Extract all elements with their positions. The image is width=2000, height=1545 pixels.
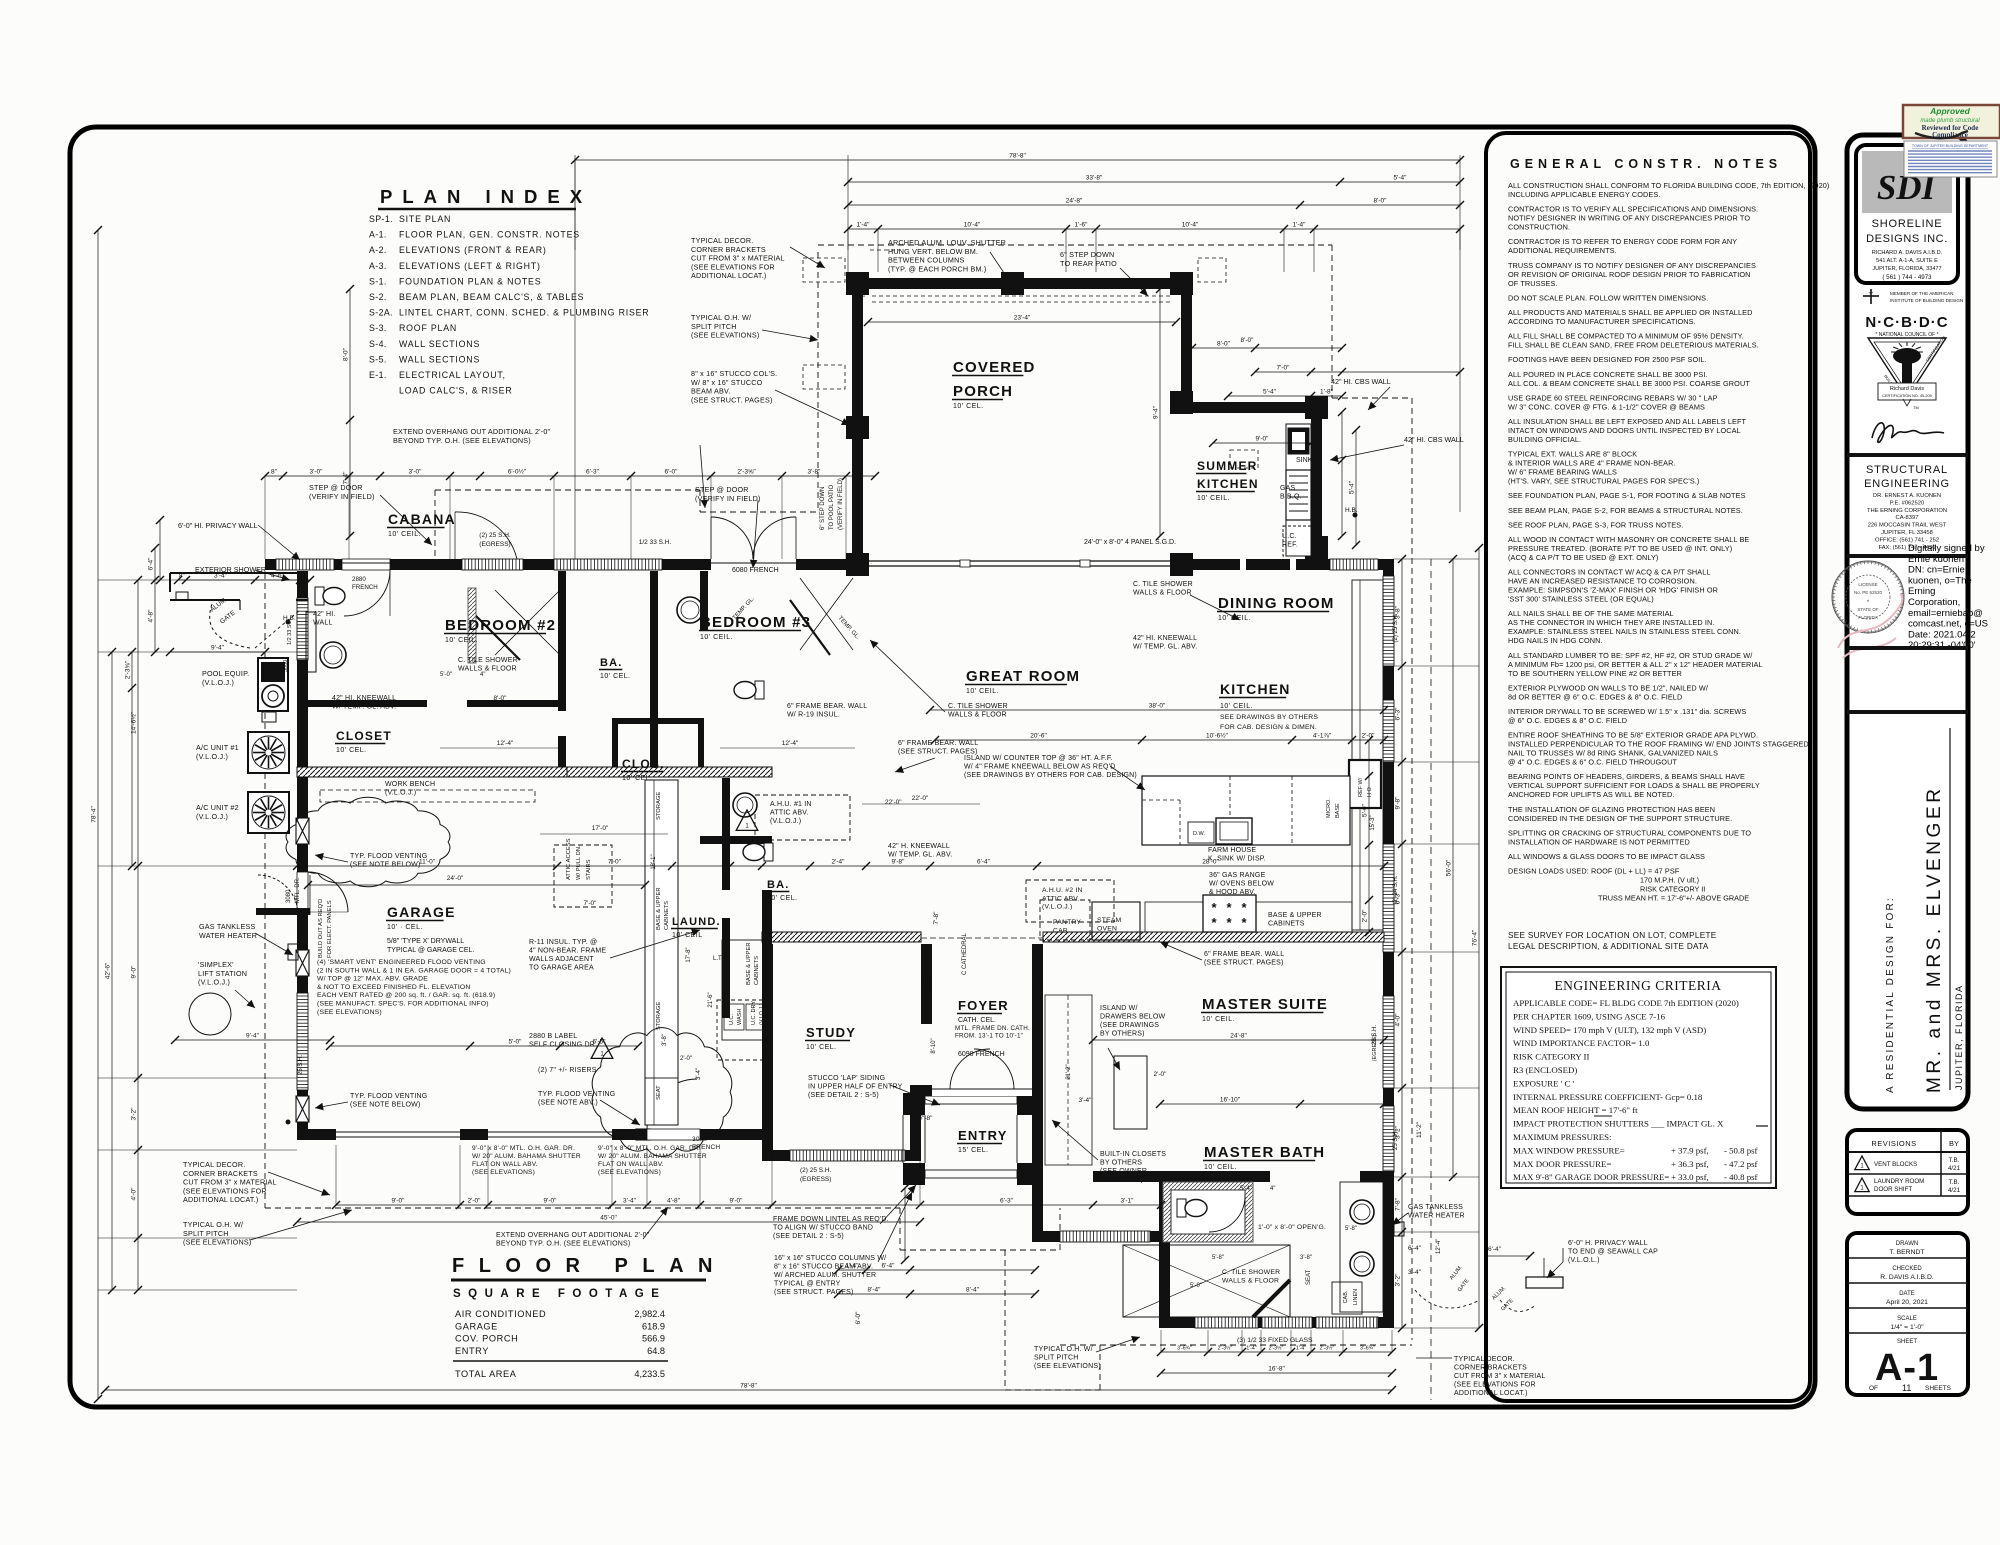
svg-text:(SEE OWNER: (SEE OWNER xyxy=(1100,1168,1147,1175)
svg-text:ALL WINDOWS & GLASS DOORS TO B: ALL WINDOWS & GLASS DOORS TO BE IMPACT G… xyxy=(1508,852,1705,861)
svg-text:6'-4": 6'-4" xyxy=(148,557,155,571)
svg-text:DESIGN LOADS USED: ROOF (DL +: DESIGN LOADS USED: ROOF (DL + LL) = 47 P… xyxy=(1508,867,1680,876)
svg-text:(2) 24 S.H.: (2) 24 S.H. xyxy=(1393,875,1399,904)
svg-text:OVEN: OVEN xyxy=(1097,925,1117,932)
svg-text:CORNER BRACKETS: CORNER BRACKETS xyxy=(691,245,766,254)
svg-text:W/ PULL DN.: W/ PULL DN. xyxy=(576,845,582,880)
svg-text:BEDROOM #3: BEDROOM #3 xyxy=(700,614,811,631)
svg-text:(V.L.O.J.): (V.L.O.J.) xyxy=(196,812,228,821)
svg-text:6'-0": 6'-0" xyxy=(855,1311,862,1325)
svg-text:(SEE ELEVATIONS): (SEE ELEVATIONS) xyxy=(317,1009,382,1016)
svg-text:INTERIOR DRYWALL TO BE SCREWED: INTERIOR DRYWALL TO BE SCREWED W/ 1.5" x… xyxy=(1508,707,1746,716)
svg-text:C. TILE SHOWER: C. TILE SHOWER xyxy=(1133,581,1193,588)
svg-text:3'-4": 3'-4" xyxy=(1408,1269,1422,1276)
svg-text:INCLUDING APPLICABLE ENERGY CO: INCLUDING APPLICABLE ENERGY CODES. xyxy=(1508,190,1661,199)
svg-text:9'-4": 9'-4" xyxy=(211,645,225,652)
svg-text:W/ 4" FRAME KNEEWALL BELOW AS: W/ 4" FRAME KNEEWALL BELOW AS REQ'D xyxy=(964,764,1116,771)
svg-text:TO BE SOUTHERN YELLOW PINE #2: TO BE SOUTHERN YELLOW PINE #2 OR BETTER xyxy=(1508,669,1682,678)
svg-text:S-2.: S-2. xyxy=(369,292,387,302)
svg-text:T. BERNDT: T. BERNDT xyxy=(1889,1249,1924,1256)
svg-text:& INTERIOR WALLS ARE 4" FRAME: & INTERIOR WALLS ARE 4" FRAME NON-BEAR. xyxy=(1508,459,1676,468)
svg-text:5080: 5080 xyxy=(283,660,289,672)
svg-text:76'-4": 76'-4" xyxy=(1472,929,1479,946)
svg-text:HDG NAILS IN HDG CONN.: HDG NAILS IN HDG CONN. xyxy=(1508,636,1603,645)
svg-text:TYP. FLOOD VENTING: TYP. FLOOD VENTING xyxy=(350,1093,427,1100)
svg-text:1'-4": 1'-4" xyxy=(857,222,871,229)
svg-text:11'-2": 11'-2" xyxy=(1416,1121,1423,1138)
svg-text:ALL STANDARD LUMBER TO BE: SPF: ALL STANDARD LUMBER TO BE: SPF #2, HF #2… xyxy=(1508,651,1753,660)
svg-text:W/ TOP @ 12" MAX. ABV. GRADE: W/ TOP @ 12" MAX. ABV. GRADE xyxy=(317,976,428,983)
svg-text:REF W/: REF W/ xyxy=(1358,777,1364,797)
svg-text:IN UPPER HALF OF ENTRY: IN UPPER HALF OF ENTRY xyxy=(808,1084,903,1091)
svg-text:5'-4": 5'-4" xyxy=(1263,389,1277,396)
svg-text:6'-3": 6'-3" xyxy=(1395,707,1402,721)
svg-text:42" HI. CBS WALL: 42" HI. CBS WALL xyxy=(1404,435,1464,444)
svg-text:WIND SPEED= 170 mph V (ULT), 1: WIND SPEED= 170 mph V (ULT), 132 mph V (… xyxy=(1513,1025,1706,1035)
svg-text:- 47.2 psf: - 47.2 psf xyxy=(1724,1159,1758,1169)
svg-text:CLOSET: CLOSET xyxy=(336,729,392,743)
svg-text:H.B.: H.B. xyxy=(283,615,296,622)
svg-text:3'-6¾": 3'-6¾" xyxy=(1177,1346,1192,1352)
svg-text:WASH: WASH xyxy=(737,1009,743,1025)
svg-text:18'-1": 18'-1" xyxy=(651,854,657,869)
svg-text:- 50.8 psf: - 50.8 psf xyxy=(1724,1145,1758,1155)
svg-text:CABANA: CABANA xyxy=(388,511,456,527)
svg-text:DATE: DATE xyxy=(1899,1291,1915,1297)
svg-text:10'-4": 10'-4" xyxy=(964,222,981,229)
svg-text:78'-8": 78'-8" xyxy=(740,1383,757,1390)
svg-text:8'-4": 8'-4" xyxy=(868,1287,882,1294)
svg-text:42'-6": 42'-6" xyxy=(105,962,112,979)
svg-text:(EGRESS): (EGRESS) xyxy=(1372,1035,1378,1062)
svg-text:4'-1⅞": 4'-1⅞" xyxy=(1313,733,1332,740)
svg-text:14'-6½": 14'-6½" xyxy=(130,711,138,734)
svg-text:EXTEND OVERHANG OUT ADDITIONAL: EXTEND OVERHANG OUT ADDITIONAL 2'-0" xyxy=(496,1232,650,1239)
svg-text:CLOS.: CLOS. xyxy=(622,757,665,771)
svg-text:(SEE DETAIL 2 : S-5): (SEE DETAIL 2 : S-5) xyxy=(808,1092,879,1099)
svg-text:4'-0": 4'-0" xyxy=(1395,1013,1402,1027)
svg-text:9'-8": 9'-8" xyxy=(892,859,906,866)
svg-text:8'-0": 8'-0" xyxy=(1374,198,1388,205)
svg-text:POOL EQUIP.: POOL EQUIP. xyxy=(202,669,249,678)
svg-text:LINEN: LINEN xyxy=(1353,1289,1359,1305)
svg-text:NAIL TO TRUSSES W/ 8d RING SHA: NAIL TO TRUSSES W/ 8d RING SHANK, GALVAN… xyxy=(1508,749,1718,758)
svg-text:LEGAL DESCRIPTION, & ADDITIONA: LEGAL DESCRIPTION, & ADDITIONAL SITE DAT… xyxy=(1508,942,1709,951)
svg-text:A/C UNIT #2: A/C UNIT #2 xyxy=(196,803,239,812)
svg-text:WIND IMPORTANCE FACTOR= 1.0: WIND IMPORTANCE FACTOR= 1.0 xyxy=(1513,1038,1650,1048)
svg-text:WALLS & FLOOR: WALLS & FLOOR xyxy=(458,666,517,673)
svg-text:7'-0": 7'-0" xyxy=(584,900,598,907)
svg-text:1'-8": 1'-8" xyxy=(1320,389,1334,396)
svg-text:3'-2": 3'-2" xyxy=(131,1107,138,1121)
svg-text:TYPICAL @ GARAGE CEL.: TYPICAL @ GARAGE CEL. xyxy=(387,947,474,954)
svg-text:7'-0": 7'-0" xyxy=(608,859,622,866)
svg-text:(SEE MANUFACT. SPEC'S. FOR ADD: (SEE MANUFACT. SPEC'S. FOR ADDITIONAL IN… xyxy=(317,1000,489,1007)
svg-text:W/ R-19 INSUL.: W/ R-19 INSUL. xyxy=(787,712,840,719)
svg-text:4": 4" xyxy=(1270,1186,1275,1192)
svg-text:7'-0": 7'-0" xyxy=(1277,365,1291,372)
svg-text:FLOOR PLAN: FLOOR PLAN xyxy=(452,1255,727,1277)
svg-text:W/ 6" FRAME BEARING WALLS: W/ 6" FRAME BEARING WALLS xyxy=(1508,468,1617,477)
svg-text:CORNER BRACKETS: CORNER BRACKETS xyxy=(1454,1365,1527,1372)
svg-text:CAB.: CAB. xyxy=(1053,927,1070,934)
svg-text:BEYOND TYP. O.H. (SEE ELEVATIO: BEYOND TYP. O.H. (SEE ELEVATIONS) xyxy=(393,436,531,445)
svg-text:email=erniebab@: email=erniebab@ xyxy=(1908,608,1983,619)
svg-text:RICHARD A. DAVIS A.I.B.D.: RICHARD A. DAVIS A.I.B.D. xyxy=(1872,250,1943,256)
svg-text:D.W.: D.W. xyxy=(1193,831,1205,837)
svg-text:2'-0": 2'-0" xyxy=(1154,1071,1168,1078)
svg-text:7'-8": 7'-8" xyxy=(933,911,940,925)
svg-text:6090 FRENCH: 6090 FRENCH xyxy=(958,1051,1005,1058)
svg-text:INSTALLED PERPENDICULAR TO THE: INSTALLED PERPENDICULAR TO THE ROOF FRAM… xyxy=(1508,740,1811,749)
svg-text:STEP @ DOOR: STEP @ DOOR xyxy=(695,485,749,494)
svg-text:W/ 3" CONC. COVER @ FTG. & 1-1: W/ 3" CONC. COVER @ FTG. & 1-1/2" COVER … xyxy=(1508,402,1705,411)
svg-text:8": 8" xyxy=(179,573,186,580)
svg-text:ACCORDING TO MANUFACTURER SPEC: ACCORDING TO MANUFACTURER SPECIFICATIONS… xyxy=(1508,317,1696,326)
svg-text:(V.L.O.J.): (V.L.O.J.) xyxy=(385,790,416,797)
svg-text:TRUSS MEAN HT. = 17'-6"+/- ABO: TRUSS MEAN HT. = 17'-6"+/- ABOVE GRADE xyxy=(1598,894,1749,903)
svg-text:CABINETS: CABINETS xyxy=(664,901,670,930)
svg-text:(VERIFY IN FIELD): (VERIFY IN FIELD) xyxy=(309,492,375,501)
svg-text:CORNER BRACKETS: CORNER BRACKETS xyxy=(183,1169,258,1178)
svg-text:S-1.: S-1. xyxy=(369,276,387,286)
svg-text:10' CEL.: 10' CEL. xyxy=(953,403,984,410)
svg-text:CERTIFICATION NO. 45-209: CERTIFICATION NO. 45-209 xyxy=(1882,394,1931,398)
svg-text:PLAN INDEX: PLAN INDEX xyxy=(380,186,592,207)
svg-text:VENT BLOCKS: VENT BLOCKS xyxy=(1874,1161,1917,1168)
svg-text:8'-0": 8'-0" xyxy=(343,347,350,361)
svg-text:TYP. FLOOD VENTING: TYP. FLOOD VENTING xyxy=(350,853,427,860)
svg-text:ENGINEERING: ENGINEERING xyxy=(1864,478,1950,490)
svg-text:ALL CONSTRUCTION SHALL CONFORM: ALL CONSTRUCTION SHALL CONFORM TO FLORID… xyxy=(1508,181,1829,190)
svg-text:3'-0": 3'-0" xyxy=(310,469,324,476)
svg-text:REF.: REF. xyxy=(1282,542,1298,549)
svg-text:3080: 3080 xyxy=(692,1136,707,1143)
svg-text:BEAM ABV.: BEAM ABV. xyxy=(691,387,731,396)
svg-text:6'-4": 6'-4" xyxy=(1488,1246,1502,1253)
svg-text:MASTER BATH: MASTER BATH xyxy=(1204,1144,1325,1161)
svg-text:BUILD OUT AS REQ'D: BUILD OUT AS REQ'D xyxy=(318,899,324,958)
svg-text:U.C.: U.C. xyxy=(1282,533,1297,540)
svg-text:4/21: 4/21 xyxy=(1948,1187,1961,1194)
svg-text:E-1.: E-1. xyxy=(369,370,387,380)
svg-text:ALL INSULATION SHALL BE LEFT E: ALL INSULATION SHALL BE LEFT EXPOSED AND… xyxy=(1508,417,1747,426)
svg-text:24'-0" x 8'-0" 4 PANEL S.G.D.: 24'-0" x 8'-0" 4 PANEL S.G.D. xyxy=(1084,539,1176,546)
svg-text:16'-8": 16'-8" xyxy=(1268,1366,1285,1373)
svg-text:WATER HEATER: WATER HEATER xyxy=(199,931,257,940)
svg-text:MAX DOOR PRESSURE=: MAX DOOR PRESSURE= xyxy=(1513,1159,1611,1169)
svg-text:2880: 2880 xyxy=(352,576,366,583)
svg-text:DO NOT SCALE PLAN. FOLLOW WRIT: DO NOT SCALE PLAN. FOLLOW WRITTEN DIMENS… xyxy=(1508,293,1708,302)
svg-text:8" x 16" STUCCO BEAM ABV.: 8" x 16" STUCCO BEAM ABV. xyxy=(774,1264,873,1271)
svg-text:5'-8": 5'-8" xyxy=(1345,1226,1357,1232)
svg-text:FLOOR PLAN, GEN. CONSTR. NOTES: FLOOR PLAN, GEN. CONSTR. NOTES xyxy=(399,230,580,240)
svg-text:kuonen, o=The: kuonen, o=The xyxy=(1908,575,1972,586)
svg-text:TYPICAL O.H. W/: TYPICAL O.H. W/ xyxy=(1034,1346,1093,1353)
svg-text:AIR CONDITIONED: AIR CONDITIONED xyxy=(455,1309,546,1319)
svg-text:ALL CONNECTORS IN CONTACT W/ A: ALL CONNECTORS IN CONTACT W/ ACQ & CA P/… xyxy=(1508,568,1711,577)
svg-text:HAVE AN INCREASED RESISTANCE T: HAVE AN INCREASED RESISTANCE TO CORROSIO… xyxy=(1508,577,1697,586)
svg-text:(4) 'SMART VENT' ENGINEERED FL: (4) 'SMART VENT' ENGINEERED FLOOD VENTIN… xyxy=(317,959,486,966)
svg-text:FLAT ON WALL ABV.: FLAT ON WALL ABV. xyxy=(472,1161,538,1168)
svg-text:4'-8": 4'-8" xyxy=(667,1198,681,1205)
svg-text:10' · CEL.: 10' · CEL. xyxy=(387,924,423,931)
svg-text:1'-4": 1'-4" xyxy=(1293,222,1307,229)
svg-text:C CATHEDRAL: C CATHEDRAL xyxy=(962,932,968,975)
svg-text:ATTIC ACCESS: ATTIC ACCESS xyxy=(566,838,572,880)
svg-text:(V.L.O.J.): (V.L.O.J.) xyxy=(198,978,230,987)
svg-text:R-11 INSUL. TYP. @: R-11 INSUL. TYP. @ xyxy=(529,939,597,946)
svg-text:BETWEEN COLUMNS: BETWEEN COLUMNS xyxy=(888,256,964,265)
svg-text:25 S.H.: 25 S.H. xyxy=(298,1055,304,1075)
svg-text:ALL PRODUCTS AND MATERIALS SHA: ALL PRODUCTS AND MATERIALS SHALL BE APPL… xyxy=(1508,308,1752,317)
svg-text:WALLS & FLOOR: WALLS & FLOOR xyxy=(1222,1277,1279,1284)
svg-text:IMPACT PROTECTION SHU: IMPACT PROTECTION SHUTTERS ___ IMPACT GL… xyxy=(1513,1119,1724,1129)
svg-text:8": 8" xyxy=(271,469,278,476)
svg-text:BASE: BASE xyxy=(1335,803,1341,818)
svg-text:(2) 25 S.H.: (2) 25 S.H. xyxy=(1393,613,1399,642)
svg-text:TYP. FLOOD VENTING: TYP. FLOOD VENTING xyxy=(538,1091,615,1098)
svg-text:SHEET: SHEET xyxy=(1897,1339,1917,1345)
svg-text:SPLIT PITCH: SPLIT PITCH xyxy=(1034,1355,1078,1362)
svg-text:10' CEL.: 10' CEL. xyxy=(600,673,631,680)
svg-text:22'-0": 22'-0" xyxy=(912,795,929,802)
svg-text:(2) 25 S.H.: (2) 25 S.H. xyxy=(479,532,511,539)
svg-text:ATTIC ABV.: ATTIC ABV. xyxy=(770,810,809,817)
svg-text:10' CEL.: 10' CEL. xyxy=(336,747,367,754)
svg-text:'SIMPLEX': 'SIMPLEX' xyxy=(198,960,234,969)
svg-text:3'-4": 3'-4" xyxy=(1079,1097,1093,1104)
svg-text:5'-4": 5'-4" xyxy=(1349,480,1356,494)
svg-text:LICENSE: LICENSE xyxy=(1858,582,1877,587)
svg-text:226 MOCCASIN TRAIL WEST: 226 MOCCASIN TRAIL WEST xyxy=(1868,523,1947,529)
svg-text:170 M.P.H. (V ult.): 170 M.P.H. (V ult.) xyxy=(1640,876,1699,885)
svg-text:Ernie kuonen: Ernie kuonen xyxy=(1908,554,1964,565)
svg-text:TO ALIGN W/ STUCCO BAND: TO ALIGN W/ STUCCO BAND xyxy=(773,1225,873,1232)
svg-text:ALL COL. & BEAM CONCRETE SHALL: ALL COL. & BEAM CONCRETE SHALL BE 3000 P… xyxy=(1508,379,1750,388)
svg-text:STEAM: STEAM xyxy=(1097,917,1122,924)
svg-text:SPLITTING OR CRACKING OF STRUC: SPLITTING OR CRACKING OF STRUCTURAL COMP… xyxy=(1508,828,1751,837)
svg-text:Date: 2021.04.2: Date: 2021.04.2 xyxy=(1908,629,1976,640)
svg-text:(SEE ELEVATIONS): (SEE ELEVATIONS) xyxy=(1034,1363,1101,1370)
svg-text:CONTRACTOR IS TO REFER TO ENER: CONTRACTOR IS TO REFER TO ENERGY CODE FO… xyxy=(1508,237,1737,246)
svg-text:566.9: 566.9 xyxy=(642,1334,665,1344)
svg-text:W/ ARCHED ALUM. SHUTTER: W/ ARCHED ALUM. SHUTTER xyxy=(774,1272,876,1279)
svg-text:SQUARE FOOTAGE: SQUARE FOOTAGE xyxy=(453,1288,666,1300)
svg-text:SINK: SINK xyxy=(1296,457,1313,464)
svg-text:2'-0": 2'-0" xyxy=(680,1056,692,1062)
svg-text:9'-0": 9'-0" xyxy=(544,1198,558,1205)
svg-text:TO END @ SEAWALL CAP: TO END @ SEAWALL CAP xyxy=(1568,1249,1658,1256)
svg-text:W/ TEMP. GL. ABV.: W/ TEMP. GL. ABV. xyxy=(888,852,952,859)
svg-text:10' CEIL.: 10' CEIL. xyxy=(1197,495,1230,502)
svg-text:TO GARAGE AREA: TO GARAGE AREA xyxy=(529,965,594,972)
svg-text:8'-10": 8'-10" xyxy=(931,1038,937,1053)
svg-text:6'-0": 6'-0" xyxy=(665,469,679,476)
svg-text:TYPICAL DECOR.: TYPICAL DECOR. xyxy=(183,1160,245,1169)
svg-text:TOTAL AREA: TOTAL AREA xyxy=(455,1369,517,1379)
svg-text:VERTICAL SUPPORT SUFFICIENT FO: VERTICAL SUPPORT SUFFICIENT FOR LOADS & … xyxy=(1508,781,1760,790)
svg-text:BASE & UPPER: BASE & UPPER xyxy=(656,887,662,930)
svg-text:(HT'S. VARY, SEE STRUCTURAL PA: (HT'S. VARY, SEE STRUCTURAL PAGES FOR SP… xyxy=(1508,477,1699,486)
svg-text:AS THE CONNECTOR IN WHICH THEY: AS THE CONNECTOR IN WHICH THEY ARE INSTA… xyxy=(1508,618,1714,627)
svg-text:LINTEL CHART, CONN. SCHED. & P: LINTEL CHART, CONN. SCHED. & PLUMBING RI… xyxy=(399,308,649,318)
svg-text:FOYER: FOYER xyxy=(958,998,1009,1013)
svg-text:BEARING POINTS OF HEADERS, GIR: BEARING POINTS OF HEADERS, GIRDERS, & BE… xyxy=(1508,772,1745,781)
svg-text:TYPICAL DECOR.: TYPICAL DECOR. xyxy=(1454,1356,1515,1363)
svg-text:ENTRY: ENTRY xyxy=(455,1346,489,1356)
svg-text:15' CEL.: 15' CEL. xyxy=(958,1147,989,1154)
svg-text:ALL NAILS SHALL BE OF THE SAME: ALL NAILS SHALL BE OF THE SAME MATERIAL xyxy=(1508,609,1674,618)
svg-text:45'-0": 45'-0" xyxy=(600,1215,617,1222)
svg-text:ELECTRICAL LAYOUT,: ELECTRICAL LAYOUT, xyxy=(399,370,506,380)
svg-text:SEE DRAWINGS BY OTHERS: SEE DRAWINGS BY OTHERS xyxy=(1220,714,1318,721)
svg-text:+ 37.9 psf,: + 37.9 psf, xyxy=(1671,1145,1709,1155)
svg-text:9'-0": 9'-0" xyxy=(730,1198,744,1205)
svg-text:(V.L.O.J.): (V.L.O.J.) xyxy=(770,818,801,825)
svg-text:A-2.: A-2. xyxy=(369,245,387,255)
svg-text:8" x 16" STUCCO COL'S.: 8" x 16" STUCCO COL'S. xyxy=(691,369,777,378)
svg-text:23'-4": 23'-4" xyxy=(1014,315,1031,322)
svg-text:BY OTHERS): BY OTHERS) xyxy=(1100,1031,1145,1038)
svg-text:(V.L.O.L.): (V.L.O.L.) xyxy=(1568,1257,1600,1264)
svg-text:(2 IN SOUTH WALL & 1 IN EA. GA: (2 IN SOUTH WALL & 1 IN EA. GARAGE DOOR … xyxy=(317,967,511,974)
svg-text:2'-4": 2'-4" xyxy=(832,859,846,866)
svg-text:10'-6½": 10'-6½" xyxy=(1206,732,1229,740)
svg-text:DRAWN: DRAWN xyxy=(1896,1241,1918,1247)
svg-text:3'-2": 3'-2" xyxy=(1395,1273,1402,1287)
svg-text:42" HI. CBS WALL: 42" HI. CBS WALL xyxy=(1331,377,1391,386)
svg-text:(SEE ELEVATIONS): (SEE ELEVATIONS) xyxy=(598,1169,661,1176)
svg-text:6'-4": 6'-4" xyxy=(882,1263,896,1270)
svg-text:R3 (ENCLOSED): R3 (ENCLOSED) xyxy=(1513,1065,1577,1075)
svg-text:8'-0": 8'-0" xyxy=(1241,337,1255,344)
svg-text:OR REVISION OF ORIGINAL ROOF D: OR REVISION OF ORIGINAL ROOF DESIGN PRIO… xyxy=(1508,270,1751,279)
svg-text:GREAT ROOM: GREAT ROOM xyxy=(966,668,1080,685)
svg-text:16" x 16" STUCCO COLUMNS W/: 16" x 16" STUCCO COLUMNS W/ xyxy=(774,1255,886,1262)
svg-text:ENTIRE ROOF SHEATHING TO BE 5/: ENTIRE ROOF SHEATHING TO BE 5/8" EXTERIO… xyxy=(1508,731,1758,740)
svg-text:TRUSS COMPANY IS TO NOTIFY DES: TRUSS COMPANY IS TO NOTIFY DESIGNER OF A… xyxy=(1508,261,1756,270)
svg-text:W/ TEMP. GL. ABV.: W/ TEMP. GL. ABV. xyxy=(332,704,396,711)
svg-text:5080: 5080 xyxy=(1038,976,1044,990)
svg-text:24'-8": 24'-8" xyxy=(1230,1033,1247,1040)
svg-text:TM: TM xyxy=(1913,405,1919,410)
svg-text:64.8: 64.8 xyxy=(647,1346,665,1356)
svg-text:LAUNDRY ROOM: LAUNDRY ROOM xyxy=(1874,1178,1924,1185)
svg-text:42" H. KNEEWALL: 42" H. KNEEWALL xyxy=(888,843,950,850)
svg-text:JUPITER, FLORIDA, 33477: JUPITER, FLORIDA, 33477 xyxy=(1872,266,1941,272)
svg-text:TO REAR PATIO: TO REAR PATIO xyxy=(1060,259,1117,268)
svg-text:W/ TEMP. GL. ABV.: W/ TEMP. GL. ABV. xyxy=(1133,644,1197,651)
svg-text:10' CEIL.: 10' CEIL. xyxy=(445,637,478,644)
svg-text:GAS TANKLESS: GAS TANKLESS xyxy=(199,922,255,931)
svg-text:JUPITER, FLORIDA: JUPITER, FLORIDA xyxy=(1954,984,1964,1090)
svg-text:REVISIONS: REVISIONS xyxy=(1871,1139,1916,1148)
svg-text:GARAGE: GARAGE xyxy=(387,904,456,920)
svg-text:TYPICAL @ ENTRY: TYPICAL @ ENTRY xyxy=(774,1281,841,1288)
svg-text:10' CEIL.: 10' CEIL. xyxy=(1202,1016,1235,1023)
svg-text:(SEE ELEVATIONS): (SEE ELEVATIONS) xyxy=(472,1169,535,1176)
svg-text:KITCHEN: KITCHEN xyxy=(1197,477,1259,491)
svg-text:'SST 300' STAINLESS STEEL (OR: 'SST 300' STAINLESS STEEL (OR EQUAL) xyxy=(1508,595,1654,604)
svg-text:Erning: Erning xyxy=(1908,586,1935,597)
svg-text:S-4.: S-4. xyxy=(369,339,387,349)
svg-text:8'-4": 8'-4" xyxy=(966,1287,980,1294)
svg-text:5/8" 'TYPE X' DRYWALL: 5/8" 'TYPE X' DRYWALL xyxy=(387,938,464,945)
svg-text:C. TILE SHOWER: C. TILE SHOWER xyxy=(948,703,1008,710)
svg-text:3'-8": 3'-8" xyxy=(808,469,822,476)
svg-text:WALL SECTIONS: WALL SECTIONS xyxy=(399,354,480,364)
svg-text:FLORIDA: FLORIDA xyxy=(1858,615,1878,620)
svg-text:COVERED: COVERED xyxy=(953,359,1036,376)
svg-text:(3) 1/2 33 FIXED GLASS: (3) 1/2 33 FIXED GLASS xyxy=(1237,1337,1313,1344)
svg-text:9'-0" x 8'-0" MTL. O.H. GAR. D: 9'-0" x 8'-0" MTL. O.H. GAR. DR. xyxy=(472,1145,575,1152)
svg-text:BASE & UPPER: BASE & UPPER xyxy=(1268,912,1322,919)
svg-text:LAUND.: LAUND. xyxy=(672,916,721,928)
svg-text:FOOTINGS HAVE BEEN DESIGNED FO: FOOTINGS HAVE BEEN DESIGNED FOR 2500 PSF… xyxy=(1508,355,1707,364)
svg-text:OF: OF xyxy=(1869,1385,1878,1392)
svg-text:12'-4": 12'-4" xyxy=(1436,1239,1442,1254)
svg-text:SUMMER: SUMMER xyxy=(1197,459,1258,473)
svg-text:C. TILE SHOWER: C. TILE SHOWER xyxy=(458,657,518,664)
svg-text:N·C·B·D·C: N·C·B·D·C xyxy=(1865,314,1948,331)
svg-text:TYPICAL DECOR.: TYPICAL DECOR. xyxy=(691,236,753,245)
svg-text:(2) 7" +/- RISERS: (2) 7" +/- RISERS xyxy=(538,1067,597,1074)
svg-text:INSTITUTE OF BUILDING DESIGN: INSTITUTE OF BUILDING DESIGN xyxy=(1890,298,1963,303)
svg-text:(SEE STRUCT. PAGES): (SEE STRUCT. PAGES) xyxy=(774,1289,854,1296)
svg-text:+ 36.3 psf,: + 36.3 psf, xyxy=(1671,1159,1709,1169)
svg-text:EXTERIOR SHOWER: EXTERIOR SHOWER xyxy=(195,565,266,574)
svg-text:24'-8": 24'-8" xyxy=(1066,198,1083,205)
svg-text:9'-4": 9'-4" xyxy=(1153,405,1160,419)
svg-text:ADDITIONAL LOCAT.): ADDITIONAL LOCAT.) xyxy=(1454,1390,1528,1397)
svg-text:1/2 33 S.H.: 1/2 33 S.H. xyxy=(639,539,672,546)
svg-text:12'-4": 12'-4" xyxy=(782,740,799,747)
svg-text:2'-0": 2'-0" xyxy=(468,1198,482,1205)
svg-text:RISK CATEGORY II: RISK CATEGORY II xyxy=(1513,1052,1589,1062)
svg-text:EXAMPLE: SIMPSON'S 'Z-MAX' FIN: EXAMPLE: SIMPSON'S 'Z-MAX' FINISH OR 'HD… xyxy=(1508,586,1718,595)
svg-text:DINING ROOM: DINING ROOM xyxy=(1218,595,1335,612)
svg-text:Digitally signed by: Digitally signed by xyxy=(1908,543,1985,554)
svg-text:2'-3⅝": 2'-3⅝" xyxy=(125,660,132,679)
svg-text:CATH. CEL.: CATH. CEL. xyxy=(958,1017,996,1024)
svg-text:GENERAL CONSTR. NOTES: GENERAL CONSTR. NOTES xyxy=(1510,157,1782,171)
svg-text:LOAD CALC'S, & RISER: LOAD CALC'S, & RISER xyxy=(399,386,513,396)
svg-text:8'-0": 8'-0" xyxy=(1217,341,1231,348)
svg-text:10' CEIL: 10' CEIL xyxy=(672,932,703,939)
svg-text:CA-8397: CA-8397 xyxy=(1896,515,1919,521)
svg-text:WALLS ADJACENT: WALLS ADJACENT xyxy=(529,956,594,963)
svg-text:* NATIONAL COUNCIL OF *: * NATIONAL COUNCIL OF * xyxy=(1875,332,1938,338)
svg-text:BEYOND TYP. O.H. (SEE ELEVATIO: BEYOND TYP. O.H. (SEE ELEVATIONS) xyxy=(496,1241,630,1248)
svg-text:6" STEP DOWN: 6" STEP DOWN xyxy=(1060,250,1114,259)
svg-text:6'-0½": 6'-0½" xyxy=(508,468,527,476)
svg-text:22'-0": 22'-0" xyxy=(885,799,902,806)
svg-text:W/ OVENS BELOW: W/ OVENS BELOW xyxy=(1209,881,1274,888)
svg-text:10' CEIL.: 10' CEIL. xyxy=(388,531,421,538)
svg-text:8'-0": 8'-0" xyxy=(494,695,508,702)
svg-text:1/4" = 1'-0": 1/4" = 1'-0" xyxy=(1890,1324,1924,1331)
svg-text:KITCHEN: KITCHEN xyxy=(1220,681,1291,697)
svg-text:1'-6": 1'-6" xyxy=(1075,222,1089,229)
svg-text:MTL. FRAME DN. CATH.: MTL. FRAME DN. CATH. xyxy=(955,1025,1030,1032)
svg-text:78'-4": 78'-4" xyxy=(91,806,98,823)
svg-text:9'-4": 9'-4" xyxy=(246,1033,260,1040)
svg-text:WALL SECTIONS: WALL SECTIONS xyxy=(399,339,480,349)
svg-text:ADDITIONAL REQUIREMENTS.: ADDITIONAL REQUIREMENTS. xyxy=(1508,246,1617,255)
svg-text:ALL FILL SHALL BE COMPACTED TO: ALL FILL SHALL BE COMPACTED TO A MINIMUM… xyxy=(1508,332,1744,341)
svg-text:6'-3": 6'-3" xyxy=(586,469,600,476)
